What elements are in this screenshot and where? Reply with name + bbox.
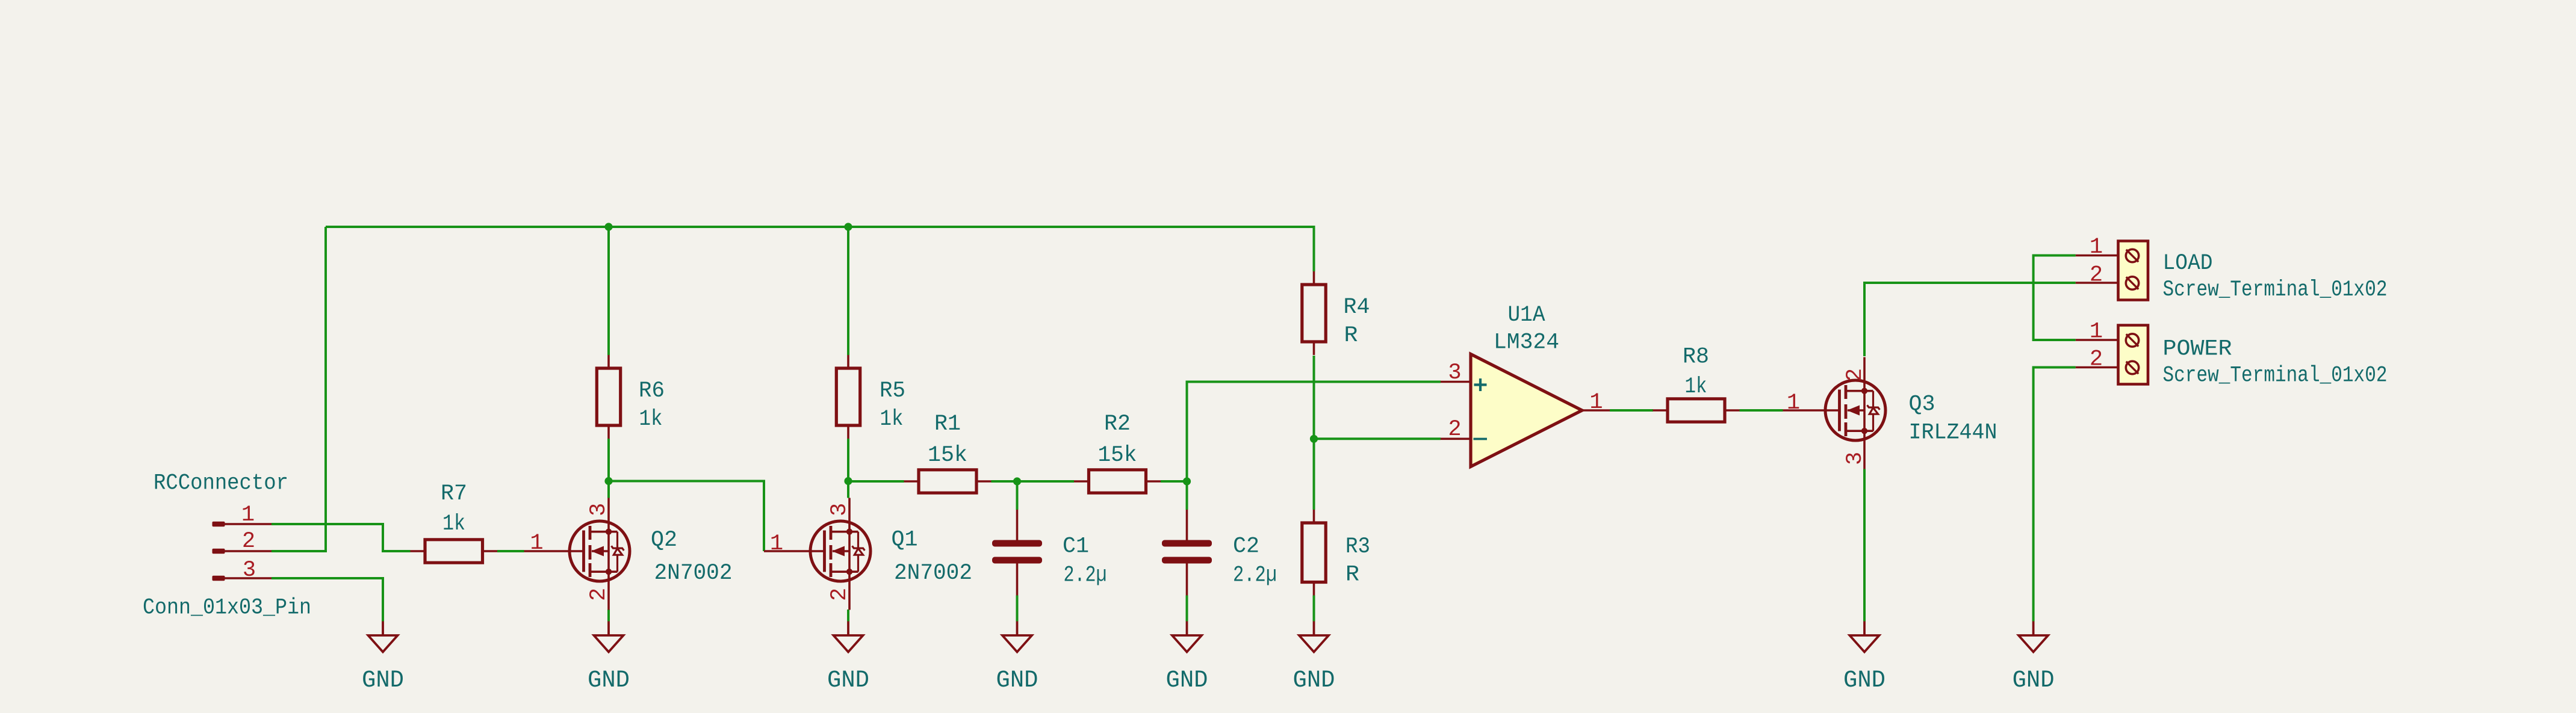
svg-text:Conn_01x03_Pin: Conn_01x03_Pin xyxy=(143,596,311,621)
svg-text:2: 2 xyxy=(2090,347,2103,372)
ground R3 xyxy=(1313,622,1315,636)
wire node to R1 xyxy=(848,480,904,483)
wire top supply bus xyxy=(326,227,1314,271)
svg-text:15k: 15k xyxy=(928,443,967,468)
op-amp input pins xyxy=(1441,382,1471,439)
junction R2-C2 node xyxy=(1183,477,1191,485)
wire R7 to Q2 gate xyxy=(497,550,524,552)
svg-text:1: 1 xyxy=(2090,235,2103,260)
svg-text:2: 2 xyxy=(586,588,612,601)
svg-text:R: R xyxy=(1345,563,1359,588)
junction Q1 drain node xyxy=(844,477,852,485)
wire R2 to C2 node xyxy=(1161,480,1187,483)
svg-text:1: 1 xyxy=(770,531,783,557)
svg-text:R6: R6 xyxy=(639,378,665,404)
ground C1 xyxy=(1016,622,1019,636)
junction R4-R3 divider node xyxy=(1310,435,1318,443)
resistor R1 xyxy=(904,480,992,483)
ground Q1 xyxy=(847,622,849,636)
wire C2 bottom to GND xyxy=(1186,596,1188,622)
svg-text:2: 2 xyxy=(1843,368,1868,381)
svg-text:1k: 1k xyxy=(639,407,663,432)
svg-text:R: R xyxy=(1344,323,1358,348)
wire Q2 source to GND xyxy=(607,610,610,622)
junction Q2 drain node xyxy=(604,477,612,485)
svg-text:GND: GND xyxy=(1166,667,1208,694)
svg-text:GND: GND xyxy=(588,667,630,694)
ground connector xyxy=(382,622,384,636)
wire C2 top xyxy=(1186,481,1188,510)
svg-text:Screw_Terminal_01x02: Screw_Terminal_01x02 xyxy=(2163,277,2388,303)
svg-text:LM324: LM324 xyxy=(1494,330,1559,356)
svg-text:3: 3 xyxy=(243,558,256,583)
svg-text:GND: GND xyxy=(1293,667,1335,694)
svg-text:GND: GND xyxy=(827,667,869,694)
resistor R7 xyxy=(411,550,498,552)
svg-text:GND: GND xyxy=(2013,667,2055,694)
svg-text:R5: R5 xyxy=(880,378,905,404)
svg-text:2N7002: 2N7002 xyxy=(894,561,972,586)
svg-text:3: 3 xyxy=(586,503,612,516)
connector J LOAD Screw_Terminal_01x02 xyxy=(2118,241,2149,300)
resistor R6 xyxy=(607,355,610,439)
connector RCConnector Conn_01x03_Pin pins xyxy=(216,523,272,525)
svg-text:2: 2 xyxy=(242,529,255,554)
wire R1 to C1 node xyxy=(992,480,1017,483)
svg-text:2N7002: 2N7002 xyxy=(654,561,733,586)
resistor R4 xyxy=(1313,271,1315,355)
svg-text:1k: 1k xyxy=(442,511,465,537)
wire pin2-to-bus vertical xyxy=(272,227,326,551)
transistor Q2 2N7002 xyxy=(570,521,630,581)
svg-text:15k: 15k xyxy=(1098,443,1137,468)
wire R5 bottom to node xyxy=(847,439,849,481)
svg-text:2: 2 xyxy=(1448,417,1461,442)
svg-text:GND: GND xyxy=(996,667,1038,694)
wire C1 bottom to GND xyxy=(1016,596,1019,622)
wire op-amp output to R8 xyxy=(1610,409,1653,412)
connector J POWER Screw_Terminal_01x02 xyxy=(2118,326,2149,384)
svg-text:2: 2 xyxy=(2090,263,2103,288)
wire R6 top xyxy=(607,227,610,355)
transistor Q3 IRLZ44N xyxy=(1825,380,1885,440)
wire Q1 drain xyxy=(847,481,849,498)
wire divider node to op-amp -input xyxy=(1314,437,1441,440)
op-amp plus sign xyxy=(1474,378,1487,391)
wire Q3 drain to LOAD pin2 xyxy=(1864,283,2076,356)
svg-text:LOAD: LOAD xyxy=(2163,251,2213,276)
transistor Q1 2N7002 xyxy=(810,521,871,581)
svg-text:3: 3 xyxy=(827,503,852,516)
svg-text:RCConnector: RCConnector xyxy=(154,471,288,496)
svg-text:R1: R1 xyxy=(934,412,961,437)
svg-text:3: 3 xyxy=(1448,360,1461,386)
svg-text:POWER: POWER xyxy=(2163,337,2232,362)
svg-text:Q1: Q1 xyxy=(892,528,918,553)
svg-text:2.2µ: 2.2µ xyxy=(1064,563,1107,588)
svg-text:U1A: U1A xyxy=(1508,303,1546,328)
svg-text:1: 1 xyxy=(530,531,543,556)
wire POWER pin2 to GND xyxy=(2034,368,2076,622)
svg-text:R4: R4 xyxy=(1344,295,1370,320)
wire pin1 to R7 xyxy=(272,524,411,551)
ground Q3 xyxy=(1863,622,1866,636)
op-amp U1A LM324 xyxy=(1471,354,1582,467)
junction bus-R5 xyxy=(844,223,852,230)
junction R1-C1-R2 node xyxy=(1013,477,1021,485)
wire Q2-drain node to Q1 gate xyxy=(609,481,764,552)
svg-text:R8: R8 xyxy=(1683,345,1709,370)
svg-text:Screw_Terminal_01x02: Screw_Terminal_01x02 xyxy=(2163,363,2388,389)
wire C1 top xyxy=(1016,481,1019,510)
svg-text:R3: R3 xyxy=(1345,534,1370,560)
resistor R2 xyxy=(1074,480,1161,483)
svg-text:1: 1 xyxy=(1589,390,1603,415)
svg-text:2.2µ: 2.2µ xyxy=(1233,563,1277,588)
junction bus-R6 xyxy=(604,223,612,230)
wire divider node to R3 xyxy=(1313,439,1315,510)
op-amp minus sign xyxy=(1474,438,1488,440)
svg-text:IRLZ44N: IRLZ44N xyxy=(1909,421,1997,446)
wire pin3 to GND xyxy=(272,578,383,622)
wire R6 bottom to node xyxy=(607,439,610,481)
wire R8 to Q3 gate xyxy=(1740,409,1783,412)
svg-text:R2: R2 xyxy=(1104,412,1131,437)
ground C2 xyxy=(1186,622,1188,636)
svg-text:3: 3 xyxy=(1843,452,1868,465)
svg-text:Q2: Q2 xyxy=(651,528,677,553)
resistor R8 xyxy=(1653,409,1740,412)
wire Q2 drain xyxy=(607,481,610,498)
ground POWER xyxy=(2032,622,2035,636)
wire Q3 source to GND xyxy=(1863,469,1866,622)
svg-text:C1: C1 xyxy=(1063,534,1089,560)
capacitor C1 xyxy=(1016,510,1019,596)
svg-text:GND: GND xyxy=(1843,667,1885,694)
svg-text:1: 1 xyxy=(241,502,255,528)
svg-text:GND: GND xyxy=(362,667,404,694)
svg-text:1k: 1k xyxy=(1685,374,1707,400)
resistor R5 xyxy=(847,355,849,439)
svg-text:1: 1 xyxy=(1787,390,1800,416)
svg-text:1k: 1k xyxy=(880,407,904,432)
wire Q1 source to GND xyxy=(847,610,849,622)
op-amp output pin xyxy=(1582,409,1610,412)
svg-text:1: 1 xyxy=(2090,319,2103,345)
wire R5 top xyxy=(847,227,849,355)
wire R3 bottom to GND xyxy=(1313,596,1315,622)
svg-text:2: 2 xyxy=(827,588,852,601)
ground Q2 xyxy=(607,622,610,636)
wire C2-node to op-amp +input xyxy=(1187,382,1441,482)
wire R4 bottom to divider node xyxy=(1313,356,1315,439)
svg-text:C2: C2 xyxy=(1233,534,1259,560)
wire C1-node to R2 xyxy=(1017,480,1075,483)
capacitor C2 xyxy=(1186,510,1188,596)
resistor R3 xyxy=(1313,510,1315,596)
svg-text:R7: R7 xyxy=(441,481,467,507)
wire LOAD pin1 to POWER pin1 xyxy=(2034,256,2076,341)
svg-text:Q3: Q3 xyxy=(1909,392,1935,418)
